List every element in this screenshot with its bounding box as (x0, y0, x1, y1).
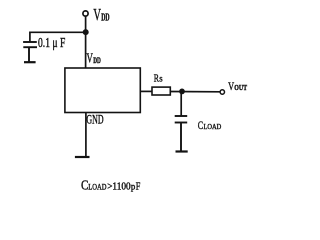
wire from junction to capacitor C1 (30, 32, 86, 41)
wire box to resistor RS (140, 90, 152, 92)
wire from box GND down (85, 113, 87, 158)
ground (under CLOAD) (176, 150, 188, 152)
capacitor C1 0.1uF (23, 42, 37, 62)
svg-text:0.1 μ F: 0.1 μ F (38, 36, 65, 51)
capacitor CLOAD (175, 116, 188, 151)
wire from VDD terminal down to box (85, 17, 87, 68)
svg-text:GND: GND (86, 113, 103, 127)
ground (under C1) (24, 61, 36, 63)
svg-text:V: V (87, 52, 93, 67)
svg-text:LOAD: LOAD (204, 122, 222, 131)
node junction dot (83, 29, 89, 35)
wire junction down to CLOAD (180, 91, 182, 115)
terminal VDD (open circle) (83, 11, 88, 16)
svg-text:F: F (136, 182, 141, 193)
svg-text:LOAD: LOAD (88, 182, 106, 192)
svg-text:OUT: OUT (234, 83, 247, 92)
op-amp/IC box U1 (65, 68, 140, 113)
terminal VOUT (open circle) (220, 90, 224, 94)
svg-text:C: C (81, 179, 88, 194)
resistor RS (152, 87, 170, 95)
svg-text:DD: DD (101, 13, 109, 24)
svg-text:C: C (198, 120, 204, 132)
svg-text:>1100: >1100 (107, 182, 131, 193)
svg-text:DD: DD (93, 56, 101, 65)
node junction dot (output node) (179, 89, 185, 95)
svg-text:s: s (159, 74, 163, 84)
wire resistor to VOUT terminal (170, 91, 220, 93)
ground (under box) (75, 156, 90, 158)
